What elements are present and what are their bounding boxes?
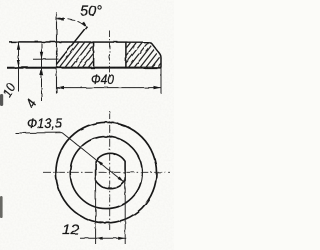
section: left chamfer line with extension for 50 deg [56,26,87,64]
angle 50 deg: leader with arrow [57,18,86,26]
section: right extension line below [160,68,162,94]
circle: top face edge [70,137,142,209]
section: hole right edge [125,42,127,68]
dimension 10: level line already top/bottom; vertical dim line [18,42,20,92]
section: vertical centerline dash-dot [109,31,111,77]
section: hole left edge [93,42,95,68]
section: hatching left region [22,39,175,71]
circle: outer diameter 40 [56,122,157,223]
dimension D13,5: leader through hole [62,133,124,183]
centerline vertical [109,111,111,230]
section: bottom face line [7,67,161,69]
scan artifact: left edge blob lower [0,196,3,218]
dimension 4: level line [33,58,59,60]
scan artifact: left edge blob upper [0,94,3,106]
dimension D13,5: shelf line [15,132,62,134]
paper noise overlay [0,0,174,250]
dimension 4: vertical dim line [41,44,43,102]
dimension D40: dimension line [57,87,162,89]
hole: circle 13.5 with two flats 12 apart [96,153,126,188]
dimension 12: extension lines [95,180,97,244]
section: top face extension line [9,41,149,43]
section: hatching right region [91,39,244,71]
section: right chamfer [149,42,161,68]
section: left edge / extension vertical line [56,13,58,94]
dimension 12: dimension line [80,237,125,239]
centerline horizontal [43,171,170,173]
